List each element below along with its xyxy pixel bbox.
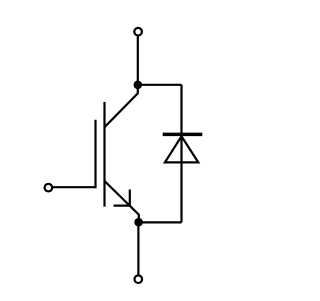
collector terminal (top open circle) [134,28,142,36]
wire node E to emitter terminal [137,222,139,275]
wire diode branch bottom horizontal to node E [139,221,182,223]
wire collector terminal to node C [137,36,139,85]
wire gate terminal to gate bar [53,186,96,188]
diode D1 triangle (anode, pointing up) [165,136,198,162]
IGBT Q1 body bar [103,102,105,207]
IGBT Q1 gate bar [94,120,96,188]
node E junction dot [134,218,143,227]
IGBT Q1 collector lead [105,85,138,127]
wire node C to diode branch (top horizontal) [138,84,182,86]
gate terminal (left open circle) [45,184,53,192]
emitter terminal (bottom open circle) [135,275,143,283]
IGBT Q1 emitter arrow barbs [114,190,130,206]
wire diode branch vertical [180,85,182,223]
node C junction dot [134,81,143,90]
IGBT Q1 emitter lead [105,181,139,222]
diode D1 cathode bar [163,133,203,137]
